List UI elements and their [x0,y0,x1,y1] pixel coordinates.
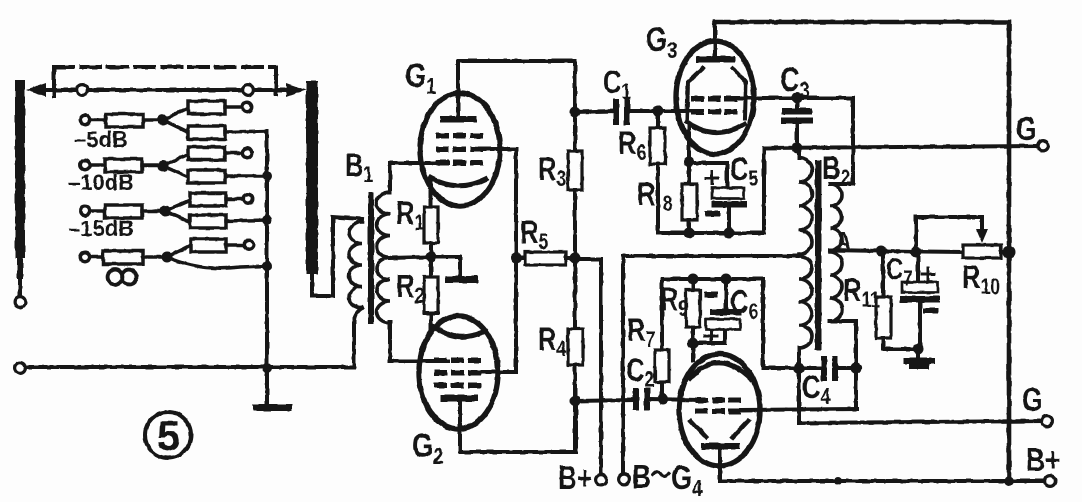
capacitor C4 [799,356,856,381]
screens rail [514,149,518,372]
row1 input contact [80,115,89,124]
row2 junction [158,161,169,172]
label R4 [538,322,566,361]
label R10 [962,260,1000,299]
wire rail to C4 [763,279,799,368]
ground lead left [265,368,269,403]
label R7 [627,313,655,352]
transformer B2 secondary lower [830,252,856,368]
label C5 [730,152,758,191]
slider contact circle right [243,85,254,96]
ground right [903,349,935,369]
row1 upper contact [242,102,251,111]
tube G3 beam plate right [733,68,746,118]
svg-text:G: G [1016,111,1037,147]
transformer B2 core [815,160,822,350]
wire G2 anode to R4 bottom [460,401,576,452]
slider arrow line left [26,83,77,97]
tube G1 grid dashes row2 [436,147,483,153]
tube G3 cathode [687,122,744,133]
wire B1 secondary center tap [390,257,427,258]
tube G2 grid dashes row3 [434,383,481,389]
tube G3 envelope [676,41,754,154]
row3 junction [160,206,171,217]
row2 series resistor [90,159,160,172]
wire bus riser to G line [762,148,766,233]
node C4 right [850,362,861,373]
wire R4 node to C2 [575,400,633,401]
tube G4 grid dashes row1 [695,398,741,404]
slider arrow line right [254,83,306,97]
node R5 right [570,253,581,264]
label C2 [626,353,654,392]
bus junction row3 [262,215,272,225]
node G3 cathode [684,157,695,168]
svg-text:–15dB: –15dB [68,216,134,241]
node C7 bottom [913,344,924,355]
G3 cathode ground bus [658,231,764,235]
resistor R2 [424,257,438,331]
row4 lower wire [167,257,267,268]
tube G2 envelope [419,316,498,429]
capacitor C5 electrolytic [689,163,747,233]
cathode junction node [426,252,437,263]
node R9 top [688,274,699,285]
resistor R6 [650,111,665,233]
ground symbol left [253,404,292,411]
node C5 bottom [724,228,735,239]
row2 upper shunt resistor [163,147,241,166]
row2 input contact [80,160,89,169]
feedback rail right [881,251,963,252]
label R5 [520,215,548,254]
svg-text:B+: B+ [558,460,592,496]
R7 R9 C6 top rail [662,277,763,281]
capacitor C2 [633,388,650,410]
wire B1 secondary top to G1 grid [390,163,448,192]
label C3 [780,60,810,103]
label B2 [822,151,850,190]
row4 upper contact [244,240,253,249]
tube G1 grid dashes row1 [436,133,483,139]
node C3 top [792,93,803,104]
row3 upper contact [243,194,252,203]
label R9 [660,282,688,321]
node C6 top [721,274,732,285]
wire G3 anode top rail [715,22,1009,481]
node top rail join [1004,476,1014,486]
bus junction row4 [262,261,272,271]
transformer B1 secondary winding [377,192,391,323]
row3 upper shunt resistor [165,193,242,211]
row3 series resistor [90,205,162,218]
label B1 [345,148,373,187]
row4 input contact [80,252,89,261]
tube G2 screen lead [481,370,516,374]
label C1 [603,65,631,104]
tube G1 cathode [431,178,486,186]
row3 lower shunt resistor [165,211,267,228]
row1 junction [158,115,169,126]
label R8 [637,177,672,216]
svg-text:B: B [632,459,651,495]
label C4 [802,370,830,409]
resistor R3 [568,151,582,329]
node C1 tap [570,107,581,118]
tube G2 grid dashes row1 [434,358,481,364]
transformer B1 core [368,192,374,324]
resistor R8 [682,162,697,233]
resistor R9 [686,279,700,343]
tube G4 cathode dome [690,363,751,379]
wire C1 to G3 grid [630,109,694,113]
wire R5 to B+ feed [575,259,601,474]
tube G3 grid dashes row1 [691,96,737,102]
wire C1 left lead [575,111,614,112]
capacitor C6 electrolytic [693,279,742,343]
wire B1 secondary bottom to G2 grid [390,322,448,361]
node R5 left [511,253,522,264]
svg-text:5: 5 [157,412,180,459]
label G3 [646,20,677,63]
wire G output upper [764,146,1037,148]
tube G4 screen lead [741,409,857,410]
transformer B2 primary lower [799,256,812,368]
potentiometer R10 [916,217,1009,258]
tube G1 grid dashes row3 [436,160,483,166]
svg-text:–5dB: –5dB [74,127,128,152]
capacitor C7 electrolytic [900,252,940,349]
dashed ganging line [54,67,276,96]
terminal G upper [1016,111,1048,151]
resistor R1 [424,207,438,257]
terminal G lower [1022,382,1052,426]
row1 series resistor [90,114,160,127]
row4 upper shunt resistor [167,239,243,257]
terminal B+ right [1026,442,1060,486]
terminal B+ bottom [558,460,606,496]
transformer B1 primary winding [349,222,362,367]
tube G3 beam plate left [687,68,703,118]
resistor R11 [876,251,916,349]
input jack bar left [15,80,25,296]
tube G1 envelope [420,93,500,206]
bus-to-common junction [262,363,272,373]
label C7 [886,251,913,290]
row2 upper contact [242,148,251,157]
tube G3 anode [696,22,735,63]
wire C4 left to G output lower [799,368,1042,423]
transformer B2 secondary upper [830,184,842,250]
tube G4 envelope [679,354,760,466]
figure number 5 [145,412,191,459]
wire cathode into G4 [691,343,695,360]
resistor R5 [516,252,575,265]
label R6 [618,126,646,165]
row2 lower shunt resistor [163,166,267,183]
tube G2 grid dashes row2 [434,370,481,376]
wire A tap [830,250,881,251]
label C6 [730,285,758,324]
capacitor C3 [781,98,813,148]
node R8 bottom [684,228,695,239]
tube G2 anode [441,395,478,452]
svg-text:G: G [1022,382,1043,418]
svg-text:B+: B+ [1026,442,1060,478]
label infinity [108,270,137,285]
resistor R7 [655,279,669,399]
node R10 right [1003,246,1016,259]
node bottom rail [834,477,842,485]
slider contact circle left [77,85,88,96]
row4 junction [162,252,173,263]
transformer B2 primary upper [799,148,812,254]
bus junction row2 [262,171,272,181]
node C3 bottom [792,143,803,154]
node G4 grid [658,394,669,405]
wire screen line to B2 secondary top [830,98,853,184]
bottom common wire [26,365,354,369]
node G4 cathode [688,338,699,349]
wire bar-right to B1 [312,217,362,296]
row4 series resistor [90,251,163,264]
tube G2 cathode [433,326,483,337]
bottom B+ rail [720,479,1044,483]
attenuator output bus [265,131,269,368]
label G1 [405,56,436,99]
row1 upper shunt resistor [163,101,241,120]
slider wire middle [88,88,242,92]
node G3 grid [653,106,664,117]
wire C4 right to G4 screen [854,368,858,409]
node C7 top [911,247,922,258]
tube G3 screen lead to C3 [737,96,853,100]
label R1 [396,196,424,235]
tube G4 grid dashes row2 [695,409,741,415]
input jack bar right [306,81,318,296]
label R2 [396,269,424,308]
node C4 left [793,362,804,373]
capacitor C1 [613,99,630,125]
terminal B- [619,459,669,495]
svg-text:–10dB: –10dB [68,170,134,195]
label R3 [538,152,566,191]
label A tap [836,227,851,256]
tube G4 beam plate right [733,421,748,437]
label G4 [671,458,703,501]
node R4 bottom [570,396,581,407]
wire B- feed [623,256,798,473]
tube G1 cathode lead [429,180,433,207]
tube G1 anode [440,61,477,123]
resistor R4 [568,329,583,452]
wire C2 to G4 grid [650,399,698,400]
wire G1 anode to R3 top [458,61,575,151]
terminal circle bottom-left [15,363,26,374]
node A line R11 [876,246,887,257]
row3 input contact [80,206,89,215]
tube G1 screen lead [483,147,516,151]
label R11 [843,273,880,312]
label G2 [412,426,443,469]
ground middle [431,257,478,283]
terminal circle left-bar [15,297,26,308]
tube G4 beam plate left [691,421,706,437]
row1 lower shunt resistor [163,120,267,139]
tube G3 grid dashes row2 [691,109,737,115]
tube G4 anode [701,443,740,481]
tube G3 cathode lead [687,126,691,162]
